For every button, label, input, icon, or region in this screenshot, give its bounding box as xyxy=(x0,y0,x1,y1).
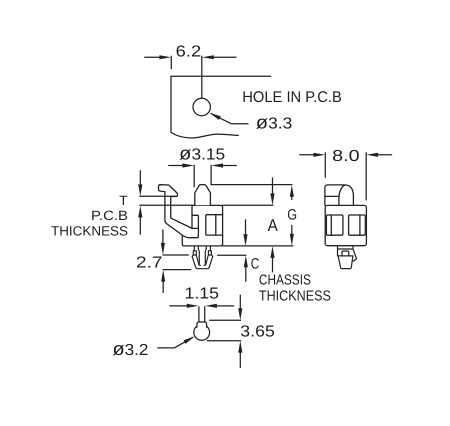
snap legs tab (front view) xyxy=(338,246,354,256)
inner step vertical xyxy=(192,215,198,236)
svg-text:T: T xyxy=(119,193,127,208)
svg-text:HOLE IN P.C.B: HOLE IN P.C.B xyxy=(242,89,341,106)
left window inner edge xyxy=(330,215,332,235)
dimension 3.65 upper arrow xyxy=(239,295,241,310)
dimension 2.7 lower arrow xyxy=(162,280,164,293)
body top extension line to A xyxy=(223,204,273,206)
dimension ⌀3.15 extension right xyxy=(210,165,212,184)
T dimension upper arrow xyxy=(139,171,141,186)
hole circle ⌀3.3 xyxy=(193,98,210,115)
svg-text:C: C xyxy=(251,256,260,273)
tip circle ⌀3.2 xyxy=(194,325,210,341)
dimension 6.2 line right xyxy=(213,56,237,58)
spacer body with clip arm (side view) xyxy=(159,185,223,246)
svg-text:G: G xyxy=(287,206,297,223)
arm underside line xyxy=(183,236,198,238)
leader ⌀3.3 xyxy=(212,114,249,124)
snap dome tip (side view) xyxy=(195,185,211,206)
dimension 1.15 line left xyxy=(170,305,188,307)
leader ⌀3.2 xyxy=(158,338,193,348)
legs bottom extension xyxy=(163,269,190,271)
svg-text:ø3.15: ø3.15 xyxy=(179,143,225,164)
center nub (front view) xyxy=(342,251,349,256)
foot (front view) xyxy=(338,256,353,269)
barb edge (front view) xyxy=(353,249,357,261)
dome top extension line to G xyxy=(211,184,292,186)
T dimension lower arrow xyxy=(139,216,141,234)
inner ledge line xyxy=(192,227,198,229)
svg-text:8.0: 8.0 xyxy=(332,148,360,165)
dimension 3.65 lower arrow xyxy=(239,351,241,367)
svg-text:3.65: 3.65 xyxy=(240,323,275,340)
dimension 8.0 extension left xyxy=(324,153,326,177)
right barb xyxy=(208,251,211,255)
right window (front view) xyxy=(349,215,366,235)
right window inner edge xyxy=(359,215,361,235)
3.65 extension top xyxy=(210,319,241,321)
dimension ⌀3.15 extension left xyxy=(193,165,195,187)
dimension 8.0 line right xyxy=(377,154,392,156)
dimension G upper arrow xyxy=(291,195,293,200)
svg-text:P.C.B: P.C.B xyxy=(91,208,128,223)
dimension 6.2 extension left xyxy=(170,56,172,68)
tip neck cap xyxy=(197,322,207,327)
snap leg stems xyxy=(193,246,195,251)
svg-text:ø3.3: ø3.3 xyxy=(256,112,293,133)
dimension ⌀3.15 line right xyxy=(222,165,237,167)
T extension line top xyxy=(140,195,176,197)
dimension A upper arrow xyxy=(272,178,274,195)
head outline (front view) xyxy=(325,185,354,205)
left window (front view) xyxy=(326,215,343,235)
dimension 6.2 extension right / hole centerline xyxy=(201,56,203,98)
left barb xyxy=(193,251,196,255)
hook shoulder line (front view) xyxy=(325,195,339,197)
svg-text:CHASSIS: CHASSIS xyxy=(259,272,311,288)
leg inner edges xyxy=(196,255,199,265)
dimension 6.2 line left xyxy=(145,56,162,58)
svg-text:ø3.2: ø3.2 xyxy=(113,338,149,359)
dimension 2.7 upper arrow xyxy=(162,230,164,245)
window inner edge xyxy=(215,215,217,235)
T extension line bottom xyxy=(140,204,195,206)
snap legs outer profile xyxy=(192,255,213,269)
chassis bottom extension left xyxy=(163,254,188,256)
dimension ⌀3.15 line left xyxy=(169,165,184,167)
dimension C lower arrow xyxy=(245,266,247,281)
chassis top line xyxy=(223,245,293,247)
3.65 extension bottom xyxy=(208,340,241,342)
PCB break line (wavy) xyxy=(171,132,238,138)
window opening (side view) xyxy=(206,215,223,235)
svg-text:1.15: 1.15 xyxy=(185,286,220,303)
dimension 8.0 extension right xyxy=(365,153,367,200)
svg-text:THICKNESS: THICKNESS xyxy=(51,223,128,238)
dimension C upper arrow xyxy=(245,220,247,236)
snap legs center slot xyxy=(198,249,200,266)
svg-text:6.2: 6.2 xyxy=(176,44,202,61)
chassis bottom extension right xyxy=(218,254,246,256)
dimension G lower arrow xyxy=(291,226,293,236)
dimension 1.15 line right xyxy=(216,305,234,307)
svg-text:2.7: 2.7 xyxy=(136,255,163,272)
legs inner top line (front view) xyxy=(338,248,353,250)
svg-text:THICKNESS: THICKNESS xyxy=(259,288,331,304)
dimension A lower arrow xyxy=(272,257,274,272)
tip neck xyxy=(199,307,205,322)
PCB sheet outline (top detail view) xyxy=(171,76,271,132)
dimension 8.0 line left xyxy=(300,154,315,156)
snap dome left flank (front view) xyxy=(339,185,345,205)
svg-text:A: A xyxy=(268,216,279,235)
body (front view) xyxy=(325,205,366,245)
